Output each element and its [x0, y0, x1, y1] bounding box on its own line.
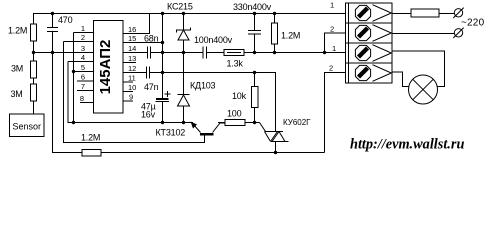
wire row A R4 to block	[244, 52, 345, 54]
pin 2 stub	[64, 41, 94, 43]
wire pin4 vertical to gnd rail	[68, 62, 193, 123]
junction row A / main vertical	[161, 51, 164, 54]
terminal block inner left edge	[348, 3, 350, 83]
junction row A / C1	[51, 51, 54, 54]
pin 8 stub	[80, 102, 93, 104]
triac VS1 right triangle	[272, 132, 285, 142]
socket pin symbol bottom	[453, 28, 463, 38]
junction row B / R6	[253, 71, 256, 74]
svg-text:1: 1	[330, 1, 334, 10]
svg-text:4: 4	[81, 53, 85, 62]
junction top rail / VD1	[182, 12, 185, 15]
wire main vertical x162 top to 47u	[162, 14, 164, 99]
capacitor C1 470 plates	[47, 27, 58, 29]
pin 15 stub to vertical	[123, 42, 163, 44]
pin 14 stub	[123, 52, 147, 54]
svg-text:Sensor: Sensor	[13, 122, 42, 132]
pin 7 stub	[77, 90, 93, 92]
svg-text:2: 2	[330, 25, 334, 34]
wire terminal4 feed	[325, 73, 346, 153]
junction row B / main vertical	[161, 71, 164, 74]
junction row A / VD1 VD2	[182, 51, 185, 54]
fuse FU1	[411, 9, 439, 17]
terminal X1.3 screw and clamp	[355, 45, 391, 62]
pin 12 stub	[123, 72, 146, 74]
resistor R8 1.2M bottom	[82, 150, 101, 157]
transistor Q1 emitter with arrow	[194, 125, 201, 133]
svg-text:1.2M: 1.2M	[281, 31, 300, 41]
svg-text:11: 11	[128, 74, 136, 83]
svg-text:15: 15	[128, 34, 136, 43]
pin 16 stub and vertical to top	[123, 14, 150, 34]
lamp HL1	[409, 75, 438, 104]
capacitor C3 47n plates	[146, 67, 148, 79]
junction gnd rail / C4	[161, 121, 164, 124]
zener VD1 cathode bar	[177, 28, 191, 33]
pin 11 stub	[123, 81, 133, 83]
zener VD1 bottom lead	[183, 40, 185, 53]
wire block row4 to lamp	[392, 72, 409, 87]
junction bottom rail / VS1	[274, 151, 277, 154]
svg-text:1.2M: 1.2M	[81, 133, 100, 143]
wire top rail to R1	[33, 14, 35, 25]
svg-text:145АП2: 145АП2	[97, 40, 114, 95]
junction row A / terminal2 feed	[323, 51, 326, 54]
terminal X1.2 screw and clamp	[355, 25, 391, 42]
wire R1 to node A	[33, 41, 35, 53]
svg-text:12: 12	[128, 64, 136, 73]
svg-text:5: 5	[81, 63, 85, 72]
capacitor C4 47u plates	[156, 98, 169, 100]
svg-text:47n: 47n	[144, 82, 159, 92]
wire row A pin3	[33, 52, 93, 54]
junction gnd rail / VD2	[182, 121, 185, 124]
svg-text:9: 9	[129, 93, 133, 102]
junction top rail / R5	[273, 12, 276, 15]
svg-text:КС215: КС215	[167, 2, 193, 12]
resistor R3 3M lower	[33, 78, 35, 84]
svg-text:14: 14	[128, 44, 136, 53]
svg-text:8: 8	[80, 94, 84, 103]
wire top rail	[33, 13, 345, 15]
resistor R1 1.2M left	[31, 24, 37, 41]
resistor R5 1.2M right	[274, 14, 276, 24]
svg-text:http://evm.wallst.ru: http://evm.wallst.ru	[350, 137, 464, 153]
wire terminal2 feed	[325, 33, 346, 53]
svg-text:2: 2	[81, 33, 85, 42]
svg-text:10: 10	[128, 83, 136, 92]
svg-text:100n400v: 100n400v	[194, 35, 233, 45]
triac VS1 left triangle	[265, 132, 278, 142]
svg-text:~220: ~220	[461, 18, 485, 29]
svg-text:КТ3102: КТ3102	[156, 128, 186, 138]
diode VD2 cathode bar	[178, 94, 190, 96]
svg-text:1.2M: 1.2M	[8, 26, 27, 36]
svg-text:3: 3	[81, 44, 85, 53]
svg-text:100: 100	[227, 109, 242, 119]
wire block row1 right + fuse	[392, 13, 455, 15]
capacitor C1 470 top lead	[52, 14, 54, 28]
svg-text:13: 13	[128, 54, 136, 63]
wire block row2 right	[392, 33, 455, 35]
pin 9 stub	[123, 100, 133, 102]
label plus 47u	[165, 93, 171, 95]
resistor R4 1.3k	[224, 50, 244, 56]
wire bottom rail	[53, 152, 325, 154]
junction top rail / C1	[51, 12, 54, 15]
pin 1 stub	[74, 32, 94, 34]
junction top rail / C6	[253, 12, 256, 15]
resistor R2 3M upper	[33, 53, 35, 62]
wire pin1-pin5 vertical	[73, 33, 75, 123]
triac VS1 top bar	[265, 131, 284, 133]
svg-text:3M: 3M	[11, 64, 23, 74]
svg-text:1.3k: 1.3k	[227, 59, 244, 69]
wire row A C5 to R4	[207, 52, 225, 54]
pin 13 stub	[123, 62, 136, 64]
svg-text:2: 2	[329, 64, 333, 73]
junction pin5 / pin1 vertical	[72, 70, 75, 73]
pin 6 stub	[77, 80, 93, 82]
svg-text:7: 7	[81, 82, 85, 91]
junction gnd rail / R6	[253, 121, 256, 124]
pin 10 stub	[123, 91, 133, 93]
svg-text:16: 16	[128, 25, 136, 34]
terminal block outer box	[346, 3, 393, 83]
resistor R6 10k	[254, 73, 256, 87]
capacitor C5 100n plates	[202, 47, 204, 59]
wire R3 to sensor	[33, 101, 35, 114]
capacitor C6 330n	[254, 14, 256, 31]
svg-text:10k: 10k	[232, 91, 247, 101]
svg-text:330n400v: 330n400v	[233, 2, 272, 12]
wire 47u bottom to gnd rail	[162, 102, 164, 123]
svg-text:16v: 16v	[141, 110, 156, 120]
svg-text:3M: 3M	[11, 89, 23, 99]
transistor Q1 collector	[213, 123, 226, 133]
wire gate diagonal	[260, 123, 266, 132]
svg-text:КУ602Г: КУ602Г	[283, 118, 311, 127]
wire row B to triac vertical	[150, 73, 276, 132]
sensor box	[10, 114, 45, 137]
diode VD2 triangle	[178, 95, 190, 106]
terminal X1.4 screw and clamp	[355, 65, 391, 82]
capacitor C2 68n plates	[147, 47, 149, 59]
junction top rail / main vertical	[161, 12, 164, 15]
svg-text:6: 6	[81, 73, 85, 82]
junction row A / R1 R2	[32, 51, 35, 54]
wire R7 to gate node	[245, 122, 260, 124]
triac VS1 bottom bar	[271, 141, 289, 143]
wire gnd rail right segment	[218, 122, 225, 124]
terminal block separators	[346, 22, 393, 24]
junction row A / R5	[273, 51, 276, 54]
wire row A right of C2	[151, 52, 204, 54]
junction gnd rail / pin1 vertical	[72, 121, 75, 124]
junction pin15 / main vertical	[161, 41, 164, 44]
wire pin2 vertical to base wire	[64, 42, 205, 143]
pin 5 stub	[74, 71, 94, 73]
IC U1 body 145AP2	[94, 21, 124, 114]
svg-text:68n: 68n	[144, 34, 159, 44]
pin 4 stub	[68, 61, 93, 63]
svg-text:1: 1	[81, 24, 85, 33]
transistor Q1 base bar	[200, 133, 214, 136]
terminal X1.1 screw and clamp	[355, 5, 391, 22]
junction row A / C6	[253, 51, 256, 54]
svg-text:1: 1	[332, 44, 336, 53]
zener VD1 triangle	[178, 30, 189, 40]
triac VS1 bottom lead	[275, 142, 277, 153]
wire C1 bottom vertical to bottom rail	[53, 32, 78, 153]
svg-text:470: 470	[58, 15, 73, 25]
diode VD2 bottom lead	[183, 106, 185, 123]
zener VD1 KS215 top lead	[183, 14, 185, 31]
diode VD2 KD103 top lead	[183, 53, 185, 95]
wire block row3 to lamp	[392, 51, 445, 87]
svg-text:КД103: КД103	[190, 81, 216, 91]
socket pin symbol top	[453, 8, 463, 18]
resistor R7 100	[225, 120, 245, 126]
